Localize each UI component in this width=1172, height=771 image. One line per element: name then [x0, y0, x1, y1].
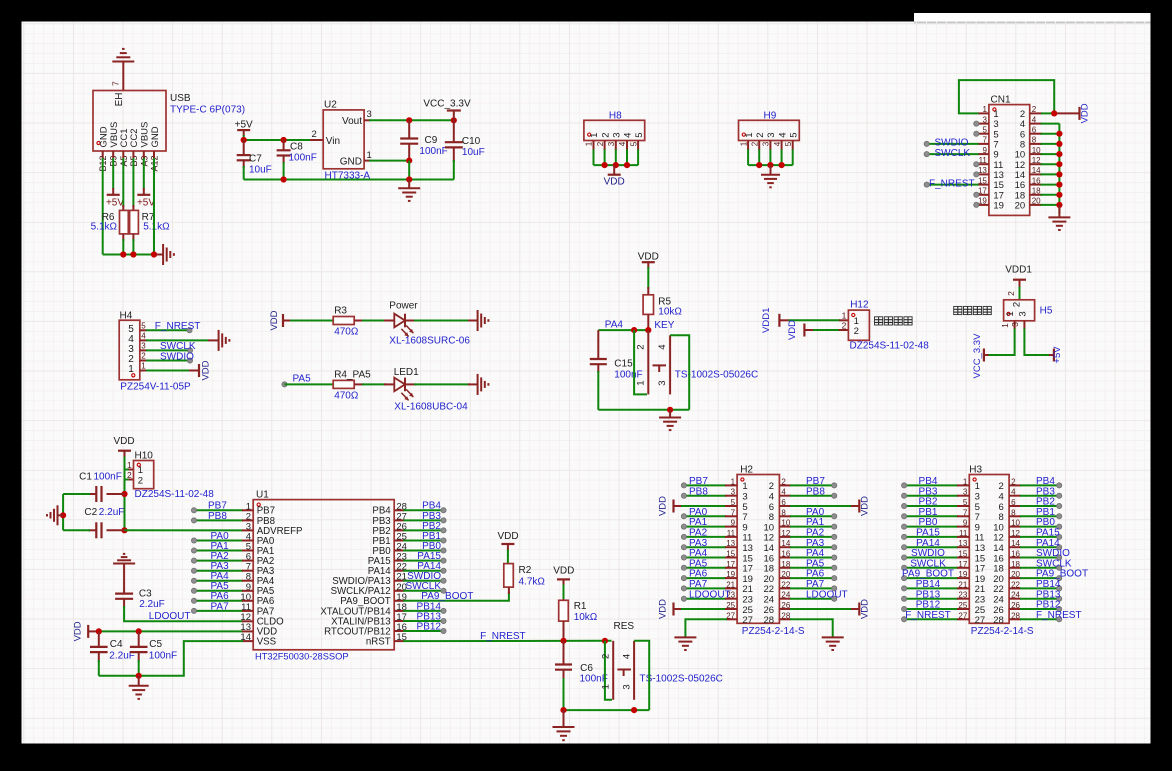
power flag VDD (H12) [787, 320, 814, 340]
svg-text:10uF: 10uF [462, 147, 485, 158]
svg-text:1: 1 [367, 150, 372, 161]
junction CN1 pin2/loop [1051, 110, 1057, 116]
svg-text:3: 3 [762, 141, 771, 146]
Power value XL-1608SURC-06 [389, 336, 470, 347]
svg-text:C7: C7 [249, 154, 262, 165]
wire C1-C2 left vertical [62, 494, 64, 530]
U2 designator [324, 100, 337, 111]
svg-text:100nF: 100nF [580, 673, 608, 684]
svg-text:SWCLK: SWCLK [935, 148, 971, 159]
switch KEY button [653, 365, 667, 372]
H5 designator [1040, 306, 1053, 317]
U1 pin numbers [240, 501, 407, 643]
wire VDD to H10 pin1 and down [125, 457, 134, 470]
wire R6 to rail [122, 239, 124, 255]
R2 designator [519, 565, 532, 576]
svg-text:H12: H12 [850, 299, 869, 310]
junction rail/C8 [281, 176, 287, 182]
svg-text:10kΩ: 10kΩ [574, 612, 598, 623]
wire B9 VBUS to +5V [112, 158, 114, 195]
wire B5 CC2 to R7 [132, 158, 134, 207]
wire R3 to LED [362, 320, 394, 322]
LED1 designator [394, 367, 419, 378]
ground left of C1/C2 [47, 505, 63, 525]
svg-text:+5V: +5V [235, 120, 253, 131]
junction left ground [60, 512, 66, 518]
net label LDOOUT (U1) [149, 611, 191, 622]
svg-text:470Ω: 470Ω [334, 391, 359, 402]
resistor R7 [130, 205, 139, 241]
power flag VDD1 (H12) [761, 308, 790, 333]
svg-text:C8: C8 [290, 142, 303, 153]
svg-text:1: 1 [141, 362, 146, 371]
svg-text:3: 3 [367, 109, 372, 120]
svg-text:F_NREST: F_NREST [480, 631, 526, 642]
H4 value PZ254V-11-05P [120, 382, 191, 393]
R1 value 10k [574, 612, 598, 623]
wire KEY bottom rail [598, 409, 689, 411]
svg-text:5: 5 [141, 321, 146, 330]
resistor R3 [333, 317, 364, 325]
power flag VDD1 (H5) [1005, 265, 1032, 289]
wire LED1 to ground [405, 383, 477, 385]
svg-text:CN1: CN1 [991, 95, 1011, 106]
wire H10 pin2 down to C1/C2 [125, 470, 134, 531]
C5 labels [149, 639, 177, 662]
connector USB TYPE-C 6P(073) body [93, 91, 166, 152]
ground (USB rail) [157, 244, 174, 265]
switch RES TS-1002S leads [613, 641, 634, 700]
svg-text:2: 2 [636, 344, 647, 349]
svg-text:USB: USB [170, 93, 191, 104]
svg-text:5: 5 [784, 141, 793, 146]
ground (U2 rail) [398, 180, 420, 201]
R5 value 10k [658, 307, 682, 318]
svg-text:4: 4 [141, 331, 146, 340]
svg-text:2: 2 [1006, 291, 1016, 296]
svg-text:LDOOUT: LDOOUT [689, 589, 731, 600]
wire H4 pin5 F_NREST [146, 328, 192, 333]
svg-text:4: 4 [622, 654, 633, 659]
connector H12 body [848, 310, 869, 340]
ground right of Power LED [478, 310, 489, 331]
svg-text:2: 2 [312, 129, 317, 140]
wire B12 GND to rail [102, 158, 104, 255]
H3 left stub wires [902, 483, 970, 622]
CN1 inner pin numbers [993, 109, 1025, 212]
svg-text:3: 3 [612, 133, 623, 138]
ground under CN1 [1048, 205, 1070, 230]
svg-text:LED1: LED1 [394, 367, 419, 378]
junction H8 pin2 [602, 162, 608, 168]
svg-text:VDD: VDD [553, 566, 574, 577]
svg-text:C9: C9 [425, 135, 438, 146]
wire CN1 pin1 loop [959, 80, 1054, 113]
wire USB ground rail [103, 254, 158, 256]
svg-text:H8: H8 [609, 111, 622, 122]
net label F_NREST (CN1) [929, 178, 975, 189]
shadow under top-right strip [914, 22, 1151, 25]
H3 right stub wires [1009, 483, 1062, 622]
R4 value 470 [334, 391, 359, 402]
power flag VDD right of H2 pin6 [859, 496, 870, 516]
svg-text:4: 4 [777, 133, 788, 138]
CN1 designator [991, 95, 1011, 106]
junction Vout/C9 [406, 117, 412, 123]
connector H4 body [119, 320, 140, 380]
wire H5 pin3 to +5V [1024, 328, 1054, 355]
wire U2 bottom rail [244, 179, 454, 181]
capacitor C10 [445, 120, 463, 179]
svg-text:F_NREST: F_NREST [155, 321, 201, 332]
svg-text:R1: R1 [574, 601, 587, 612]
wire RES bottom rail [564, 709, 650, 711]
label current-measure CJK [875, 317, 913, 325]
R2 value 4.7k [519, 577, 546, 588]
svg-text:GND: GND [150, 126, 161, 147]
H12 designator [850, 299, 869, 310]
svg-text:4: 4 [618, 141, 627, 146]
svg-text:100nF: 100nF [614, 369, 642, 380]
svg-text:3: 3 [657, 380, 668, 385]
connector CN1 body [989, 105, 1030, 216]
svg-text:U1: U1 [256, 490, 269, 501]
svg-text:1: 1 [636, 380, 647, 385]
svg-text:TYPE-C 6P(073): TYPE-C 6P(073) [170, 105, 245, 116]
svg-text:PB8: PB8 [208, 511, 227, 522]
wire H2 pin5 VDD [674, 505, 738, 507]
capacitor C3 [115, 594, 133, 608]
svg-text:PA5: PA5 [293, 374, 312, 385]
svg-text:C5: C5 [149, 639, 162, 650]
H10 designator [135, 451, 154, 462]
svg-text:4: 4 [657, 344, 668, 349]
ground under KEY [659, 410, 681, 430]
wire VDD to R2 [507, 550, 509, 566]
svg-text:1: 1 [585, 141, 594, 146]
wire VDD1 to H12 pin1 [789, 319, 849, 321]
svg-text:DZ254S-11-02-48: DZ254S-11-02-48 [135, 489, 215, 500]
H8 bottom rail [594, 164, 639, 166]
H9 designator [764, 111, 777, 122]
svg-text:5: 5 [788, 133, 799, 138]
net label PA9_BOOT (U1) [421, 591, 473, 602]
svg-text:7: 7 [111, 81, 121, 86]
svg-text:U2: U2 [324, 100, 337, 111]
svg-text:R2: R2 [519, 565, 532, 576]
USB designator text [170, 93, 191, 104]
ground under H2 right [822, 637, 844, 650]
svg-text:VDD1: VDD1 [1005, 265, 1032, 276]
svg-text:XL-1608UBC-04: XL-1608UBC-04 [394, 402, 468, 413]
svg-text:C2: C2 [84, 507, 97, 518]
wire CN1 pin2 to VDD [1041, 112, 1080, 114]
svg-text:DZ254S-11-02-48: DZ254S-11-02-48 [850, 341, 930, 352]
USB pin numbers [98, 156, 159, 172]
label power-select CJK [954, 306, 992, 314]
junction at VCC_3.3V [451, 117, 457, 123]
wire H4 pin2 SWDIO [146, 358, 193, 363]
switch RES button [617, 670, 631, 677]
svg-text:PZ254V-11-05P: PZ254V-11-05P [120, 382, 191, 393]
connector H9 body and pins [739, 120, 800, 165]
wire R7 to rail [132, 239, 134, 255]
svg-text:1: 1 [1005, 311, 1016, 316]
net label SWCLK (H4) [160, 341, 196, 352]
svg-text:C1: C1 [79, 471, 92, 482]
U1 designator [256, 490, 269, 501]
junction rail/gnd [406, 176, 412, 182]
svg-text:3: 3 [1018, 311, 1029, 316]
svg-text:5: 5 [629, 141, 638, 146]
svg-text:2: 2 [842, 321, 847, 331]
svg-text:3: 3 [607, 141, 616, 146]
junction H9 pin2 [756, 162, 762, 168]
ground right of LED1 [478, 374, 489, 395]
svg-text:VDD: VDD [201, 360, 212, 380]
svg-text:H10: H10 [135, 451, 154, 462]
CN1 bus junctions [1056, 131, 1062, 208]
H5 pin1 stub [1000, 321, 1014, 330]
svg-text:H3: H3 [969, 465, 982, 476]
svg-text:27: 27 [975, 615, 986, 626]
svg-text:nRST: nRST [366, 637, 391, 648]
net label F_NREST (H4) [155, 321, 201, 332]
wire +5V rail to Vin [244, 139, 324, 141]
C2 labels [84, 507, 124, 518]
H12 value DZ254S-11-02-48 [850, 341, 930, 352]
svg-text:Vout: Vout [342, 116, 362, 127]
LED LED1 [394, 378, 413, 401]
svg-text:4: 4 [623, 133, 634, 138]
H4 pin numbers and stubs [128, 321, 146, 375]
svg-text:VDD: VDD [113, 436, 134, 447]
capacitor C6 [555, 641, 572, 710]
H2 pin numbers [726, 477, 791, 626]
junction H9 pin3 [767, 162, 773, 168]
wire VDD to R1 [563, 585, 565, 602]
svg-text:2: 2 [854, 326, 859, 337]
H12 pin numbers [842, 311, 859, 337]
svg-text:+5V: +5V [1052, 346, 1063, 364]
wire H4 pin1 to VDD [146, 370, 199, 372]
power flag VDD (R1) [553, 566, 574, 587]
wire VDD rail U1 [97, 630, 253, 632]
ground under H2 left [674, 637, 696, 650]
H5 inner numbers [1005, 302, 1028, 317]
svg-text:C3: C3 [139, 588, 152, 599]
wire LED to ground [405, 320, 477, 322]
svg-text:2: 2 [138, 475, 143, 486]
R5 designator [658, 297, 671, 308]
LED Power [394, 314, 413, 337]
wire KEY pin4 to rail [670, 335, 689, 410]
svg-text:VDD: VDD [859, 496, 870, 516]
USB pin stubs [103, 151, 154, 159]
svg-text:VDD: VDD [497, 531, 518, 542]
svg-text:H5: H5 [1040, 306, 1053, 317]
H10 pin numbers [127, 460, 143, 487]
wire A12 GND to rail [153, 158, 155, 255]
wire R5 to KEY node [647, 314, 649, 330]
wire VDD to R5 [647, 267, 649, 295]
ground under C5 [129, 676, 149, 699]
power flag +5V (left) [106, 195, 124, 209]
net label PA4 [605, 320, 624, 331]
svg-text:LDOOUT: LDOOUT [149, 611, 191, 622]
power flag +5V (right) [137, 195, 155, 209]
svg-text:VDD1: VDD1 [761, 308, 772, 333]
svg-text:10kΩ: 10kΩ [658, 307, 682, 318]
ground above C3 [113, 554, 135, 594]
junction C5/rail [136, 673, 142, 679]
wire H4 pin3 SWCLK [146, 348, 193, 353]
svg-text:H2: H2 [740, 465, 753, 476]
R3 value 470 [334, 327, 359, 338]
net label F_NREST (U1) [480, 631, 526, 642]
junction H10/C1 [121, 491, 127, 497]
C3 labels [139, 588, 165, 610]
wire ADVREFP [125, 529, 254, 531]
wire H2 pin26 VDD [779, 608, 859, 610]
svg-text:2: 2 [141, 352, 146, 361]
H2 right net labels [806, 476, 848, 600]
switch RES designator [614, 621, 635, 632]
wire VDD1 to H5 pin2 [1019, 287, 1021, 300]
svg-text:VSS: VSS [257, 637, 277, 648]
svg-text:1: 1 [744, 133, 755, 138]
R1 designator [574, 601, 587, 612]
wire SWDIO to CN1 pin7 [924, 141, 978, 146]
svg-text:RES: RES [614, 621, 635, 632]
U2 pin 3 Vout [342, 109, 372, 127]
resistor R4 [333, 380, 364, 388]
power flag VDD right of CN1 [1080, 103, 1091, 123]
USB pin names [99, 122, 161, 148]
power flag VDD (H10) [113, 436, 134, 458]
svg-text:R4_PA5: R4_PA5 [334, 370, 371, 381]
svg-text:H4: H4 [120, 310, 133, 321]
svg-text:PB8: PB8 [689, 486, 708, 497]
junction R1/F_NREST [560, 638, 566, 644]
svg-text:1: 1 [1000, 323, 1010, 328]
power flag +5V (H5) [1052, 346, 1063, 364]
H2 left net labels [689, 476, 731, 600]
svg-text:VDD: VDD [658, 496, 669, 516]
svg-text:100nF: 100nF [289, 153, 317, 164]
ground (USB shield EH) [112, 49, 134, 91]
H3 designator [969, 465, 982, 476]
svg-text:2.2uF: 2.2uF [99, 507, 125, 518]
net label SWCLK (CN1) [935, 148, 971, 159]
svg-text:VDD: VDD [658, 599, 669, 619]
svg-text:2: 2 [755, 133, 766, 138]
H3 right net labels [1036, 476, 1088, 621]
svg-text:PZ254-2-14-S: PZ254-2-14-S [742, 626, 805, 637]
svg-text:4: 4 [773, 141, 782, 146]
connector H10 body [134, 461, 154, 489]
net label PA5 [293, 374, 312, 385]
U1 right stub wires [394, 508, 446, 634]
ground right of H4 [219, 330, 230, 351]
svg-text:+5V: +5V [106, 198, 124, 209]
svg-text:100nF: 100nF [419, 146, 447, 157]
connector H2 body [737, 475, 779, 624]
svg-text:1: 1 [128, 364, 134, 375]
svg-text:VDD: VDD [638, 252, 659, 263]
net label PA5 wire [282, 382, 334, 387]
svg-text:1: 1 [842, 311, 847, 321]
junction H9 pin4 [779, 162, 785, 168]
ground under H9 [761, 165, 780, 187]
junction H10/C2/ADVREFP [121, 527, 127, 533]
svg-text:PA9_BOOT: PA9_BOOT [421, 591, 473, 602]
svg-text:C15: C15 [614, 359, 633, 370]
svg-text:3: 3 [766, 133, 777, 138]
junction H8 pin4 [624, 162, 630, 168]
svg-text:2: 2 [1011, 302, 1022, 307]
svg-text:VDD: VDD [72, 621, 83, 641]
net label SWDIO (H4) [160, 351, 194, 362]
svg-text:4.7kΩ: 4.7kΩ [519, 577, 546, 588]
svg-text:GND: GND [340, 156, 362, 167]
wire A9 VBUS to +5V [143, 158, 145, 195]
R6 labels [91, 212, 118, 233]
H3 value PZ254-2-14-S [971, 626, 1034, 637]
svg-text:HT32F50030-28SSOP: HT32F50030-28SSOP [255, 652, 349, 662]
svg-text:1: 1 [127, 460, 132, 470]
svg-text:1: 1 [739, 141, 748, 146]
connector H8 body and pins [584, 120, 645, 165]
power flag VDD (U1) [72, 621, 98, 641]
svg-text:C10: C10 [462, 136, 481, 147]
junction GND/C9 [406, 158, 412, 164]
svg-text:VDD: VDD [1080, 103, 1091, 123]
power flag +5V (U2 input) [235, 120, 253, 141]
C8 labels [289, 142, 317, 164]
wire H4 pin4 to ground [146, 339, 219, 341]
junction RES bypass [602, 638, 608, 644]
svg-text:C4: C4 [110, 639, 123, 650]
C4 labels [109, 639, 135, 662]
svg-text:PA7: PA7 [211, 601, 230, 612]
wire VSS to rail [99, 641, 253, 676]
wire nRST F_NREST [394, 640, 611, 642]
U2 pin 1 GND [340, 150, 372, 167]
svg-text:TS-1002S-05026C: TS-1002S-05026C [675, 370, 758, 381]
ground symbol under RES [553, 727, 575, 740]
C10 labels [462, 136, 485, 158]
R7 labels [142, 212, 171, 233]
switch KEY TS-1002S leads [648, 330, 670, 394]
R4 designator [334, 370, 371, 381]
wire PA9_BOOT to R2 [394, 592, 509, 601]
junction PA4/C15 branch [631, 327, 637, 333]
top-right white strip [914, 13, 1151, 22]
CN1 pin stubs [978, 113, 1042, 204]
H3 left net labels [902, 476, 954, 621]
svg-text:100nF: 100nF [149, 650, 177, 661]
wire RES bypass to pin1 [605, 641, 612, 700]
svg-text:F_NREST: F_NREST [905, 610, 951, 621]
svg-text:3: 3 [622, 684, 633, 689]
U2 value HT7333-A [325, 171, 371, 182]
switch KEY pin numbers [636, 344, 668, 385]
USB value text [170, 105, 245, 116]
H3 pin numbers [958, 477, 1020, 626]
C1 labels [79, 471, 122, 482]
power flag VDD left of H2 pin25 [658, 599, 674, 619]
